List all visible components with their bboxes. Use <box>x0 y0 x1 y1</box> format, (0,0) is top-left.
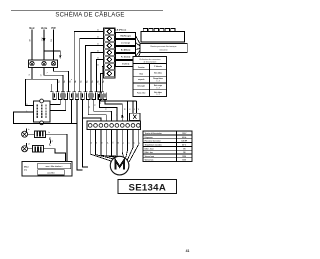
svg-text:N-B (Phase): N-B (Phase) <box>115 29 127 31</box>
svg-text:bk: bk <box>111 111 113 113</box>
svg-text:pk: pk <box>134 142 136 144</box>
svg-text:Bouton-poussoir électronique: Bouton-poussoir électronique <box>150 45 177 48</box>
svg-text:arr. lampe: arr. lampe <box>121 43 130 45</box>
svg-text:bk: bk <box>97 37 99 39</box>
note box B1 Mise <box>22 162 72 177</box>
motor terminal strip TS1 <box>87 121 141 130</box>
net label box arr. lampe <box>116 40 136 46</box>
svg-text:1 - 7: 1 - 7 <box>156 87 159 89</box>
svg-text:bk: bk <box>100 102 102 104</box>
svg-text:1 - 7: 1 - 7 <box>156 94 159 96</box>
connector CN5 striped <box>33 146 44 152</box>
inline connector CN2 <box>99 88 103 100</box>
svg-text:Vérification des connexions: Vérification des connexions <box>139 58 160 61</box>
wire TB1-1 to connector pin 1 <box>32 67 57 83</box>
wire relay K1 output 1 to CN1 socket 1 <box>50 99 60 104</box>
svg-text:PW: PW <box>51 39 53 42</box>
svg-text:1300: 1300 <box>182 160 186 162</box>
pin number labels above CN1 <box>58 80 105 83</box>
wire relay K1 input 2 and bottom bus <box>14 112 77 124</box>
lamp DS1 <box>22 129 30 138</box>
svg-text:wh: wh <box>28 143 30 145</box>
svg-text:wh: wh <box>112 142 114 144</box>
wire motor lead 1 <box>90 130 111 162</box>
terminal block TB1 <box>29 60 58 68</box>
svg-text:Noir: Noir <box>29 26 34 30</box>
svg-text:1/20 HP: 1/20 HP <box>181 141 188 143</box>
svg-text:Noir-blanc: Noir-blanc <box>154 73 162 75</box>
wire TB1-1 branch to relay K1 input <box>26 79 34 105</box>
wire CN1 socket 7 to motor strip <box>94 99 112 121</box>
net label box Rd (Rouge) <box>116 33 136 39</box>
wire motor lead 8 <box>126 130 128 159</box>
svg-text:bk: bk <box>91 142 93 144</box>
svg-text:Noir-blanc: Noir-blanc <box>154 92 162 94</box>
svg-text:gy: gy <box>118 142 120 144</box>
wire L2 supply with arrow <box>41 30 45 60</box>
svg-text:Fréquence: Fréquence <box>145 137 153 139</box>
label box Bouton-poussoir electronique minuterie <box>140 43 187 52</box>
svg-text:bk: bk <box>116 114 118 116</box>
svg-text:170: 170 <box>183 148 186 150</box>
svg-text:bk: bk <box>95 104 97 106</box>
wire motor lead 9 <box>127 130 133 160</box>
svg-text:bk: bk <box>97 58 99 60</box>
svg-text:gy: gy <box>124 108 126 110</box>
svg-text:bk: bk <box>97 51 99 53</box>
svg-text:130: 130 <box>183 152 186 154</box>
svg-text:PW: PW <box>51 26 56 30</box>
wire motor lead 6 <box>117 130 122 157</box>
wire lamp DS2 to connector <box>28 148 33 150</box>
table T1 verification des connexions <box>133 56 166 96</box>
wire SW1 pole to inline connector CN2 <box>100 74 103 88</box>
wire motor lead 10 <box>129 130 138 162</box>
svg-text:1550: 1550 <box>182 156 186 158</box>
wire colour labels near SW1 <box>97 30 99 67</box>
svg-text:12: 12 <box>40 74 42 76</box>
svg-text:Pu (Violet): Pu (Violet) <box>121 56 131 59</box>
svg-text:Bu (Blanc): Bu (Blanc) <box>121 50 131 52</box>
wire CN5 to box B1 <box>44 149 66 162</box>
svg-text:L: L <box>27 110 28 112</box>
wire CN1 socket 5 long drop <box>83 99 88 167</box>
wire CN1 socket 6 to motor strip <box>88 99 106 121</box>
svg-text:Rouge-blanc: Rouge-blanc <box>153 78 163 80</box>
motor M1 <box>110 156 129 175</box>
wire motor lead 3 <box>101 130 116 158</box>
svg-text:Vr (Vert): Vr (Vert) <box>122 63 130 66</box>
wire motor lead 7 <box>122 130 123 158</box>
svg-text:Décongél.: Décongél. <box>137 86 145 88</box>
wire CN2 to motor strip bus <box>100 99 136 101</box>
wire CN1 socket 8 to motor strip <box>99 99 117 121</box>
wire drops into connector CN3 <box>133 101 137 113</box>
wire CN3 to strip circles 9 10 <box>133 119 138 122</box>
wires CN1 pins to switch strip SW1 <box>74 32 103 84</box>
svg-text:ampoule: ampoule <box>138 79 145 81</box>
table T2 ratings <box>143 131 192 162</box>
svg-text:Noir-rouge: Noir-rouge <box>154 85 162 87</box>
svg-text:a: a <box>71 79 73 80</box>
svg-text:Verte: Verte <box>41 26 48 30</box>
wire motor lead 4 <box>106 130 118 157</box>
svg-text:60 Hz: 60 Hz <box>182 137 186 139</box>
svg-text:Mise: Mise <box>24 166 30 168</box>
wire bus branch to strip circle 3 <box>83 118 101 121</box>
wire labels near staircase <box>71 79 119 116</box>
model label box SE134A <box>118 180 177 194</box>
motor lead colour labels <box>91 142 141 144</box>
svg-text:bk: bk <box>89 106 91 108</box>
svg-text:bk: bk <box>97 44 99 46</box>
lamp DS2 <box>22 143 31 152</box>
svg-text:bk: bk <box>97 30 99 32</box>
svg-text:bk: bk <box>97 65 99 67</box>
wire relay K1 output 2 to CN1 socket 2 <box>50 99 66 110</box>
wire TB1-3 to connector pin 3 <box>54 67 69 83</box>
wire CN4 to box B1 <box>46 134 67 161</box>
wire lamp DS1 to connector <box>28 133 35 135</box>
net label box Bu (Blanc) <box>116 47 136 53</box>
svg-text:p: p <box>99 83 101 84</box>
wire harness to push-button unit U2 <box>135 36 141 64</box>
svg-text:P. blanche: P. blanche <box>154 66 162 68</box>
svg-text:bu: bu <box>96 142 98 144</box>
inline connector CN3 <box>130 113 140 120</box>
header rule <box>11 10 163 12</box>
svg-text:1 - 7: 1 - 7 <box>156 81 159 83</box>
wire TB1-2 to connector pin 2 <box>44 67 63 83</box>
connector CN1 multi-pin comb <box>50 84 107 100</box>
wire motor lead 5 <box>112 130 120 157</box>
wire L3 supply <box>53 30 55 60</box>
net label box Pu (Violet) <box>116 54 136 60</box>
wire CN1 socket 3 to bottom bus <box>70 99 72 123</box>
svg-text:Rd (Rouge): Rd (Rouge) <box>121 36 132 38</box>
relay timer K1 <box>34 99 50 125</box>
svg-text:de branchement: de branchement <box>144 60 157 63</box>
svg-text:ye: ye <box>107 142 109 144</box>
wire L1 supply black <box>31 30 33 60</box>
svg-text:minuterie: minuterie <box>159 49 168 52</box>
svg-text:SCHÉMA DE CÂBLAGE: SCHÉMA DE CÂBLAGE <box>55 12 124 19</box>
svg-text:41: 41 <box>186 249 190 253</box>
svg-text:SE134A: SE134A <box>129 182 167 193</box>
wire drop to strip circle 8 <box>127 101 129 121</box>
wire CN1 socket 9 to strip circle 7 with arrow <box>105 99 124 121</box>
wire CN1 socket 4 long drop <box>77 99 82 170</box>
net label box Vr (Vert) <box>116 61 136 67</box>
selector switch strip SW1 <box>104 28 116 78</box>
wire squiggle between lamps <box>49 137 52 145</box>
wire labels near CN3 <box>124 108 140 110</box>
connector CN4 striped <box>35 131 46 137</box>
svg-text:12-3: 12-3 <box>41 38 43 42</box>
wire branch to arrow stub <box>44 51 61 59</box>
svg-text:bk: bk <box>106 108 108 110</box>
wire motor lead 2 <box>96 130 114 159</box>
push-button timer unit U2 <box>141 29 185 42</box>
